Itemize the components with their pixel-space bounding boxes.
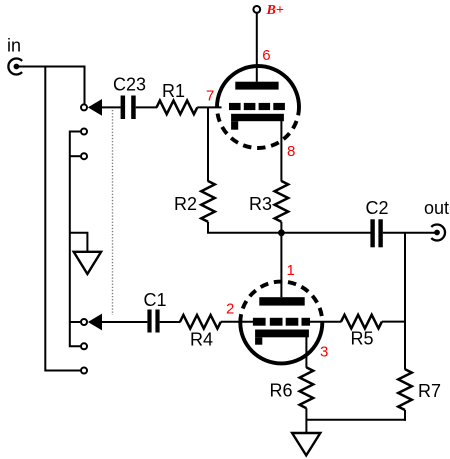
svg-text:R3: R3 bbox=[249, 194, 272, 214]
svg-text:in: in bbox=[7, 36, 21, 56]
wire contact 3 stub bbox=[70, 155, 81, 157]
switch S1a wiper arrow bbox=[88, 99, 102, 116]
svg-text:R2: R2 bbox=[174, 194, 197, 214]
tube V2 envelope top (dashed) bbox=[240, 282, 322, 323]
wire R3 to junction bbox=[280, 222, 282, 233]
svg-text:R4: R4 bbox=[190, 329, 213, 349]
input jack bbox=[8, 58, 22, 74]
resistor R6 bbox=[300, 367, 314, 408]
svg-text:R1: R1 bbox=[162, 81, 185, 101]
wire cathode to R6 bbox=[305, 337, 307, 368]
wire out branch down to R5/R7 bbox=[404, 233, 406, 370]
wire C23 to R1 bbox=[136, 106, 157, 108]
switch S1a wiper contact bbox=[81, 104, 87, 110]
svg-text:2: 2 bbox=[226, 301, 234, 318]
ground G1 bbox=[74, 252, 101, 274]
svg-text:C2: C2 bbox=[366, 198, 389, 218]
tube V1 grid (pin 7) bbox=[229, 103, 285, 110]
wire arrow to C23 bbox=[101, 106, 121, 108]
resistor R7 bbox=[398, 369, 412, 410]
mid bus wire bbox=[207, 232, 371, 234]
output jack bbox=[431, 225, 445, 241]
wire R4 to grid pin 2 bbox=[221, 321, 254, 323]
wire pin7 node down to R2 bbox=[207, 107, 209, 181]
wire junction to V2 plate bbox=[280, 233, 282, 297]
svg-text:8: 8 bbox=[287, 143, 295, 160]
switch S1b contact 2 bbox=[81, 343, 87, 349]
wire cathode to R3 bbox=[280, 121, 282, 182]
bottom bus wire bbox=[306, 419, 406, 421]
wire switch contacts to ground bus bbox=[70, 132, 81, 347]
switch S1b wiper contact bbox=[81, 319, 87, 325]
tube V2 cathode (pin 3) bbox=[255, 330, 309, 345]
wire R7 to bottom bus bbox=[404, 410, 406, 421]
wire S1b wiper to ground bus bbox=[70, 321, 81, 323]
ground G2 bbox=[292, 433, 320, 455]
resistor R2 bbox=[201, 181, 215, 222]
resistor R5 bbox=[341, 315, 382, 329]
svg-text:C23: C23 bbox=[113, 75, 146, 95]
svg-text:R6: R6 bbox=[270, 381, 293, 401]
switch S1b wiper arrow bbox=[88, 314, 102, 331]
resistor R3 bbox=[275, 181, 289, 222]
tube V1 plate (pin 6) bbox=[235, 82, 278, 90]
switch S1a contact 3 bbox=[81, 153, 87, 159]
tube V2 bbox=[240, 282, 322, 364]
switch S1b contact 3 bbox=[81, 368, 87, 374]
capacitor C23 bbox=[121, 96, 136, 120]
wire input long left branch bbox=[45, 67, 80, 371]
wire R1 to grid pin 7 bbox=[197, 106, 221, 108]
resistor R4 bbox=[180, 315, 221, 329]
svg-text:6: 6 bbox=[262, 47, 270, 64]
svg-text:B+: B+ bbox=[266, 3, 284, 18]
svg-text:C1: C1 bbox=[144, 290, 167, 310]
capacitor C2 bbox=[370, 219, 382, 247]
tube V1 envelope bottom (dashed) bbox=[217, 107, 299, 148]
svg-text:R5: R5 bbox=[351, 329, 374, 349]
wire ground branch bbox=[70, 233, 88, 252]
tube V1 cathode (pin 8) bbox=[231, 114, 284, 130]
wire C1 to R4 bbox=[160, 321, 181, 323]
wire B+ lead to plate bbox=[256, 13, 258, 82]
wire C2 to out jack bbox=[383, 232, 436, 234]
tube V1 bbox=[217, 66, 299, 148]
wire R5 to right bus bbox=[382, 321, 406, 323]
svg-text:R7: R7 bbox=[418, 381, 441, 401]
resistor R1 bbox=[157, 101, 198, 115]
wire S1b arrow to C1 bbox=[101, 321, 147, 323]
B+ terminal bbox=[253, 6, 260, 13]
junction node dot bbox=[278, 229, 285, 236]
wire R6 to ground G2 bbox=[305, 408, 307, 433]
svg-text:1: 1 bbox=[287, 262, 295, 279]
svg-text:out: out bbox=[424, 198, 449, 218]
wire input to switch top bbox=[16, 67, 84, 104]
svg-text:7: 7 bbox=[206, 87, 214, 104]
capacitor C1 bbox=[147, 310, 159, 333]
tube V2 grid (pin 2) bbox=[253, 318, 310, 326]
tube V1 envelope top (solid) bbox=[217, 66, 299, 107]
svg-text:3: 3 bbox=[320, 344, 328, 361]
wire R2 to mid bus bbox=[207, 222, 209, 233]
tube V2 envelope bottom (solid) bbox=[240, 323, 322, 364]
switch S1a contact 2 bbox=[81, 129, 87, 135]
tube V2 plate (pin 1) bbox=[259, 297, 304, 305]
switch mechanical link (dotted) bbox=[112, 110, 114, 315]
wire grid pin to R5 bbox=[309, 321, 342, 323]
